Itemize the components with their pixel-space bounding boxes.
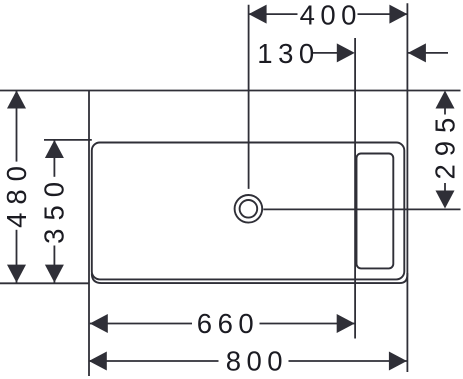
tap shelf rounded rect bbox=[357, 154, 394, 269]
svg-text:480: 480 bbox=[1, 158, 32, 228]
bottom-left extension line bbox=[0, 282, 90, 284]
arrow 480 top bbox=[7, 91, 26, 109]
arrow 800 right bbox=[389, 352, 407, 371]
dimension 800 bbox=[89, 360, 407, 362]
arrow 400 left bbox=[249, 5, 267, 24]
right edge vertical extension line bbox=[406, 3, 408, 372]
arrow 800 left bbox=[89, 352, 107, 371]
arrow 480 bottom bbox=[7, 265, 26, 283]
basin outline bbox=[92, 143, 408, 284]
basin outer bottom silhouette bbox=[92, 273, 408, 283]
arrow 130 right (points left at right edge) bbox=[408, 43, 426, 62]
drain vertical centerline bbox=[248, 5, 250, 189]
basin main rounded rect bbox=[92, 143, 405, 280]
arrow 350 bottom bbox=[45, 265, 64, 283]
svg-text:800: 800 bbox=[226, 345, 288, 376]
dimension 295 bbox=[444, 109, 446, 191]
arrow 660 right bbox=[337, 314, 355, 333]
drain centerline right extension bbox=[263, 208, 460, 210]
shelf-edge vertical extension line bbox=[354, 38, 356, 339]
dimension 480 bbox=[16, 91, 18, 283]
dimension 130 bbox=[313, 52, 448, 54]
svg-text:660: 660 bbox=[197, 308, 259, 339]
dimension 400 bbox=[249, 13, 408, 15]
arrow 130 left (points right at shelf line) bbox=[337, 43, 355, 62]
svg-text:295: 295 bbox=[430, 110, 461, 180]
top reference line bbox=[0, 90, 461, 92]
arrow 295 bottom bbox=[436, 191, 455, 209]
drain inner circle bbox=[240, 200, 258, 218]
svg-text:350: 350 bbox=[39, 174, 70, 244]
svg-text:400: 400 bbox=[300, 0, 362, 30]
left edge vertical extension line bbox=[88, 91, 90, 377]
arrow 660 left bbox=[90, 314, 108, 333]
svg-text:130: 130 bbox=[257, 38, 319, 69]
arrow 400 right bbox=[389, 5, 407, 24]
dimension 660 bbox=[90, 323, 355, 325]
arrow 350 top bbox=[45, 140, 64, 158]
drain outer circle bbox=[235, 195, 263, 223]
dimension 350 bbox=[53, 140, 55, 283]
arrow 295 top bbox=[436, 91, 455, 109]
basin top-left extension line bbox=[44, 139, 92, 141]
